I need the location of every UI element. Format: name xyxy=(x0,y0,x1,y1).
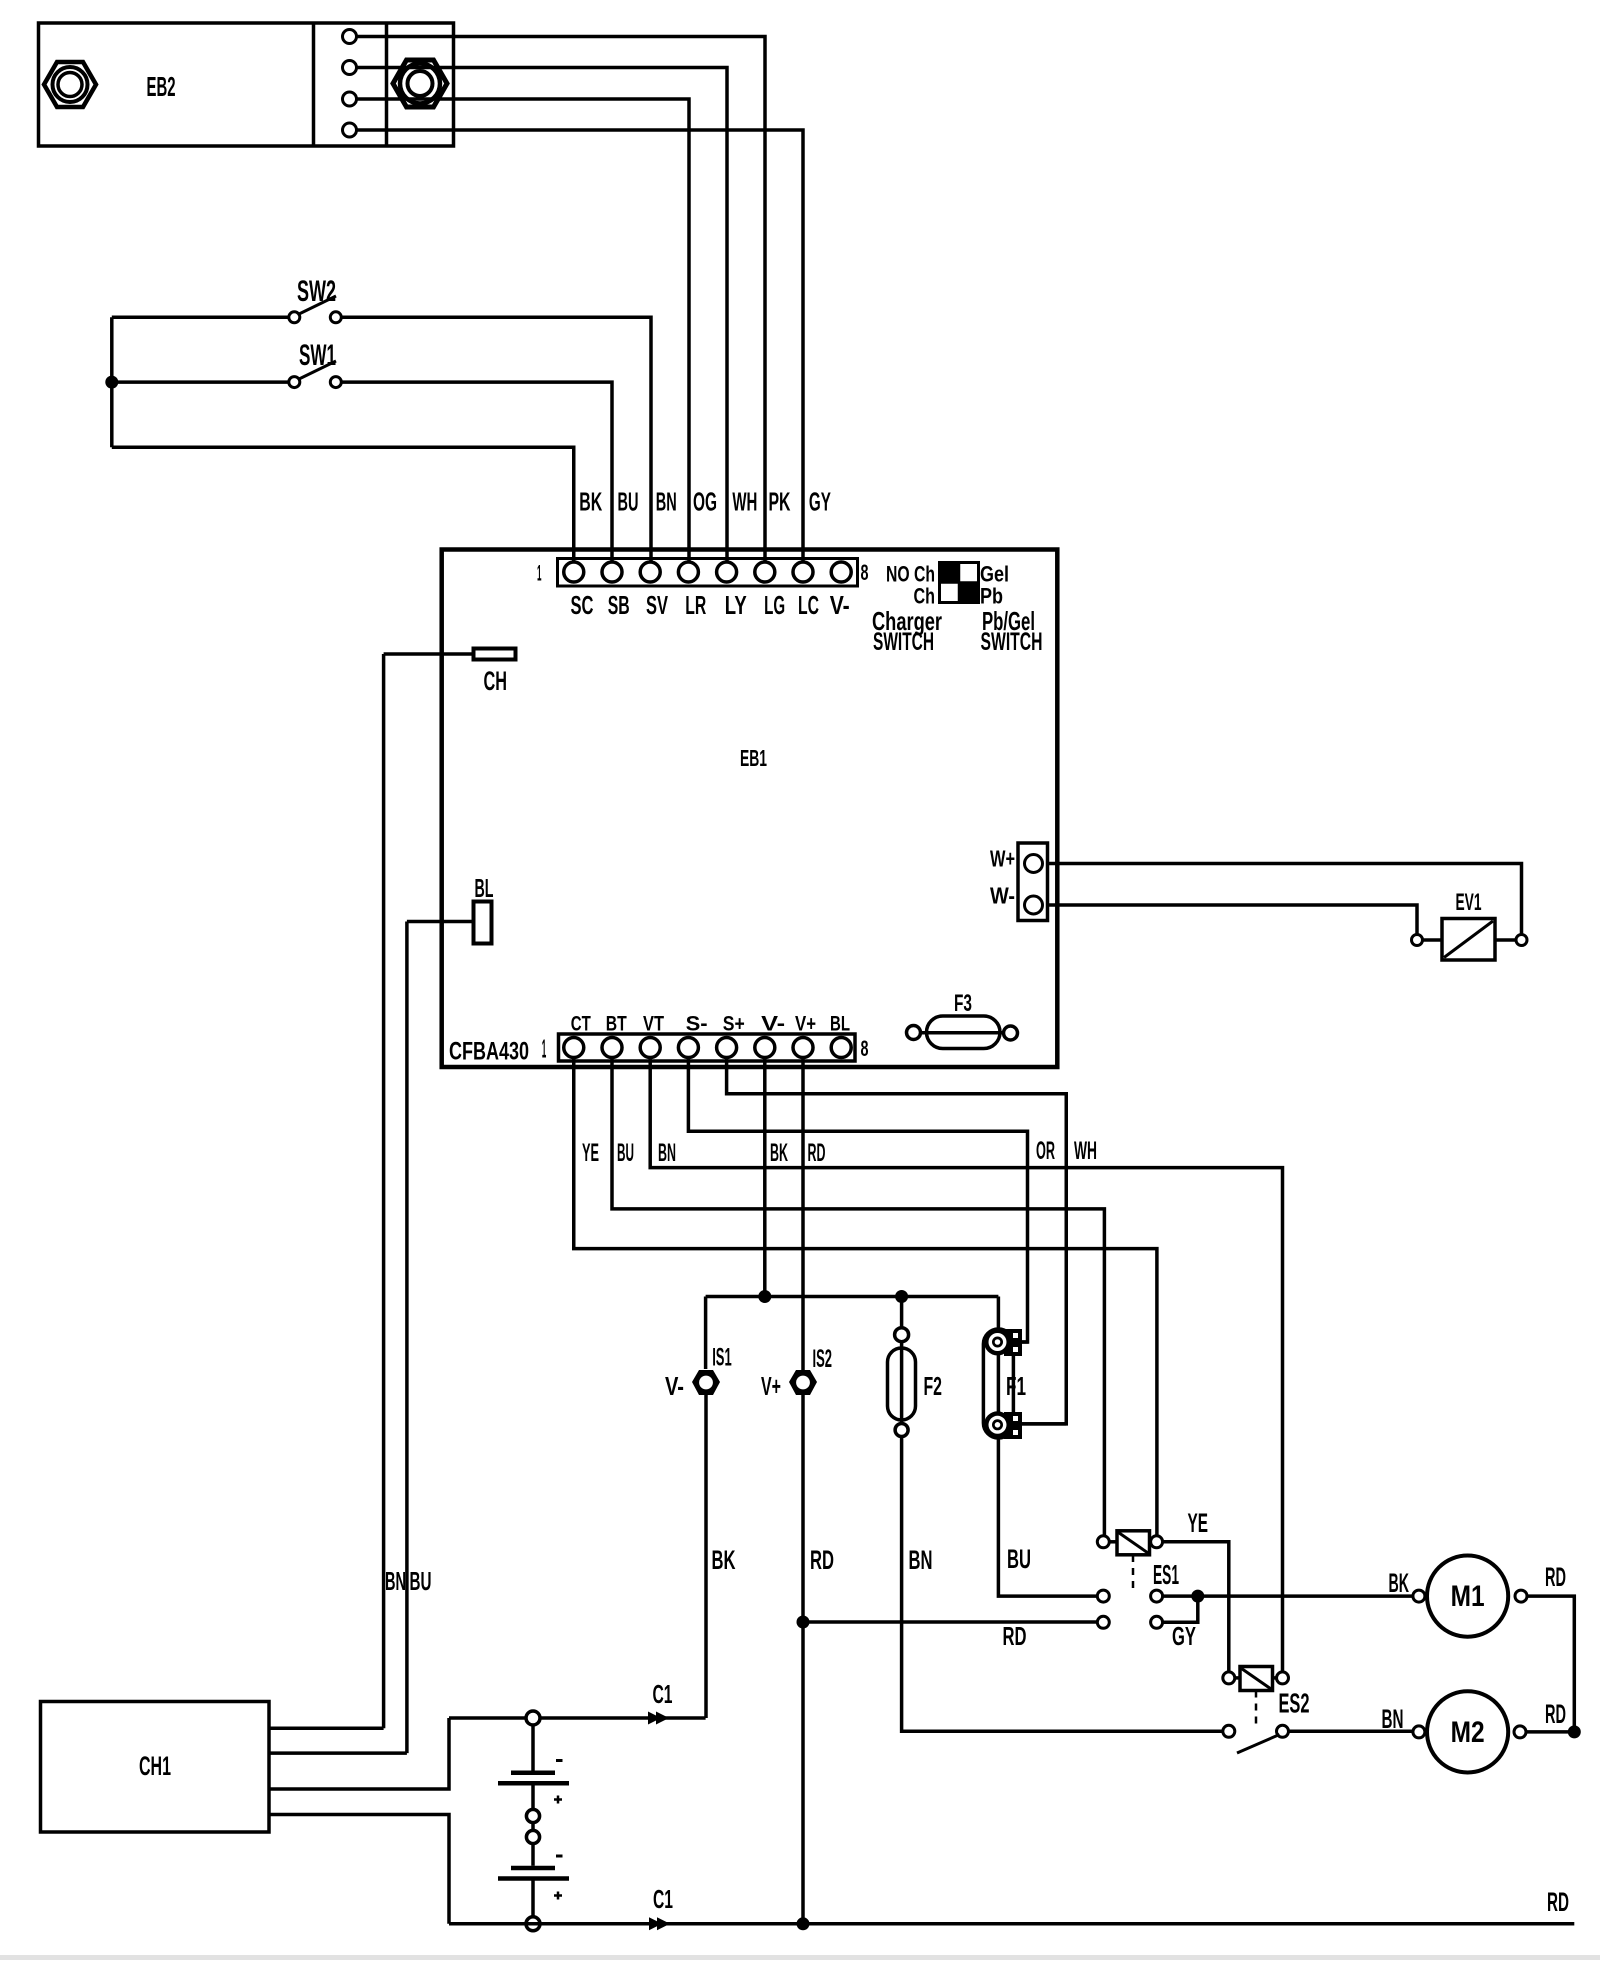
svg-text:M1: M1 xyxy=(1451,1580,1485,1613)
label RD (bottom right) xyxy=(1547,1887,1569,1917)
svg-text:OR: OR xyxy=(1036,1137,1055,1165)
label Charger xyxy=(872,606,942,636)
wire label WH (mid) xyxy=(1074,1137,1097,1165)
wire label BK (mid) xyxy=(770,1139,788,1167)
label BL xyxy=(475,873,494,903)
wire label BU xyxy=(618,489,639,517)
wire label OR (mid) xyxy=(1036,1137,1055,1165)
pin number 8 (bottom strip) xyxy=(861,1036,869,1061)
terminal label LR xyxy=(685,592,706,620)
svg-text:BK: BK xyxy=(712,1545,736,1575)
svg-text:LY: LY xyxy=(725,592,747,620)
label SWITCH (charger) xyxy=(873,628,934,656)
wire BK (IS1 down to battery rail) xyxy=(704,1394,708,1718)
svg-text:V+: V+ xyxy=(761,1371,781,1401)
terminal label V- xyxy=(830,592,850,620)
label ES1 xyxy=(1153,1559,1179,1590)
terminal label LG xyxy=(764,592,785,620)
wire M2 to RD rail xyxy=(1526,1730,1574,1734)
motor M1 xyxy=(1413,1556,1527,1637)
terminal label VT (bottom strip) xyxy=(643,1013,664,1036)
controller EB1 outline xyxy=(442,550,1058,1068)
label IS2 xyxy=(813,1345,833,1373)
terminal label LY xyxy=(725,592,747,620)
terminal block EB2 outline xyxy=(39,23,454,146)
wire CH1 to BU xyxy=(269,1751,407,1755)
wire label BN (lower) xyxy=(909,1545,933,1575)
wire BN (SW2 to terminal SV) xyxy=(341,317,651,562)
label C1 (top) xyxy=(653,1679,673,1709)
battery mid link xyxy=(531,1823,535,1831)
svg-text:CH: CH xyxy=(484,666,508,696)
svg-text:VT: VT xyxy=(643,1013,664,1036)
svg-text:SV: SV xyxy=(646,592,668,620)
label F3 xyxy=(954,990,972,1017)
battery 1 xyxy=(498,1725,569,1809)
svg-text:YE: YE xyxy=(582,1139,599,1167)
svg-text:1: 1 xyxy=(537,561,542,586)
wire label BK xyxy=(579,489,602,517)
relay ES2 actuator link xyxy=(1255,1691,1258,1727)
svg-text:WH: WH xyxy=(732,489,757,517)
label Pb xyxy=(980,584,1003,609)
svg-text:8: 8 xyxy=(861,1036,869,1061)
wire ES1 upper contact to M1 xyxy=(1162,1594,1413,1598)
wire label BU (lower) xyxy=(1007,1544,1031,1574)
charger CH1 outline xyxy=(41,1702,270,1833)
page footer line xyxy=(0,1955,1600,1960)
svg-text:SW2: SW2 xyxy=(297,275,336,308)
wire WH (S+ to F1 bottom) xyxy=(727,1058,1067,1424)
svg-text:GY: GY xyxy=(1172,1621,1196,1651)
wire GY (lower contact up to junction) xyxy=(1162,1602,1198,1623)
svg-text:BK: BK xyxy=(770,1139,788,1167)
component BL xyxy=(474,902,492,944)
junction GY / M1 wire xyxy=(1191,1590,1204,1603)
wire PK (EB2 pin1 to terminal LG) xyxy=(357,37,766,563)
label RD (contact) xyxy=(1003,1621,1027,1651)
label EV1 xyxy=(1456,889,1482,916)
svg-text:BL: BL xyxy=(475,873,494,903)
wire bus to F1 xyxy=(997,1297,1001,1330)
svg-text:S+: S+ xyxy=(723,1013,745,1036)
wire label BU (left) xyxy=(410,1566,432,1596)
wire label RD (mid) xyxy=(808,1139,826,1167)
label W- xyxy=(990,883,1015,909)
terminal CT (pin, bottom strip) xyxy=(564,1038,584,1058)
wire label RD (lower) xyxy=(810,1545,834,1575)
bottom terminal strip outline xyxy=(559,1034,856,1061)
wire bus (battery minus distribution) xyxy=(706,1295,999,1299)
switch SW2 xyxy=(112,296,341,323)
svg-text:OG: OG xyxy=(693,489,717,517)
relay ES1 contact lower xyxy=(1097,1616,1162,1628)
svg-text:RD: RD xyxy=(1545,1562,1566,1592)
terminal LR (pin) xyxy=(678,562,698,582)
svg-text:BN: BN xyxy=(1382,1704,1404,1734)
motor M2 xyxy=(1413,1691,1526,1772)
label RD (M2) xyxy=(1545,1699,1566,1729)
label RD (M1) xyxy=(1545,1562,1566,1592)
wire F1 bottom to WH xyxy=(1013,1422,1066,1426)
label F2 xyxy=(924,1371,943,1401)
wire YE (CT to ES1 coil right) xyxy=(574,1058,1157,1537)
fuse F1 bottom clip xyxy=(984,1411,1022,1439)
svg-text:S-: S- xyxy=(686,1013,708,1036)
wire label BK (lower) xyxy=(712,1545,736,1575)
svg-text:V-: V- xyxy=(830,592,850,620)
EB2 pin 1 xyxy=(343,30,357,44)
wire bus to IS1 xyxy=(704,1297,708,1370)
terminal label S+ (bottom strip) xyxy=(723,1013,745,1036)
svg-text:GY: GY xyxy=(809,489,831,517)
terminal LY (pin) xyxy=(717,562,737,582)
svg-text:PK: PK xyxy=(769,489,791,517)
svg-text:ES1: ES1 xyxy=(1153,1559,1179,1590)
svg-text:F1: F1 xyxy=(1006,1371,1026,1401)
svg-text:Pb: Pb xyxy=(980,584,1003,609)
terminal S- (pin, bottom strip) xyxy=(678,1038,698,1058)
hex bolt left of EB2 xyxy=(44,62,96,107)
svg-text:V+: V+ xyxy=(795,1013,816,1036)
wire label BN xyxy=(656,489,677,517)
EB2 pin 3 xyxy=(343,92,357,106)
label BN (M2) xyxy=(1382,1704,1404,1734)
label GY xyxy=(1172,1621,1196,1651)
switch SW1 xyxy=(112,361,341,388)
wire BN (VT to ES2 coil right) xyxy=(650,1058,1282,1673)
stud IS1 xyxy=(692,1370,720,1395)
wire RD (V+ down to bottom rail) xyxy=(801,1058,805,1924)
wire RD (IS2 branch to ES1 lower contact) xyxy=(803,1620,1098,1624)
svg-text:F2: F2 xyxy=(924,1371,943,1401)
terminal label V- (bottom strip) xyxy=(761,1013,785,1036)
svg-text:LG: LG xyxy=(764,592,785,620)
wire label BN (left) xyxy=(385,1566,406,1596)
label IS1 xyxy=(712,1344,732,1372)
terminal block W xyxy=(1018,843,1048,921)
svg-text:RD: RD xyxy=(1003,1621,1027,1651)
terminal label BL (bottom strip) xyxy=(830,1013,850,1036)
fuse F1 top clip xyxy=(984,1329,1022,1357)
wire W+ to EV1 xyxy=(1048,864,1522,935)
terminal V- (pin) xyxy=(831,562,851,582)
svg-text:EB1: EB1 xyxy=(740,745,767,771)
wire BL to left xyxy=(407,920,474,924)
label EB1 xyxy=(740,745,767,771)
wire BU (F1 to ES1 contact) xyxy=(998,1438,1097,1596)
svg-text:RD: RD xyxy=(1547,1887,1569,1917)
terminal label BT (bottom strip) xyxy=(606,1013,627,1036)
junction bottom rail / RD xyxy=(797,1917,810,1930)
svg-text:BU: BU xyxy=(617,1139,634,1167)
terminal label SC xyxy=(571,592,594,620)
svg-text:RD: RD xyxy=(808,1139,826,1167)
svg-text:W+: W+ xyxy=(990,846,1015,872)
wire W- to EV1 xyxy=(1048,905,1418,935)
connector C1 (top) arrow xyxy=(648,1712,669,1725)
svg-text:LC: LC xyxy=(798,592,819,620)
wire YE (ES1 to ES2 coil) xyxy=(1162,1542,1229,1673)
fuse F3 xyxy=(907,1016,1018,1049)
svg-text:BK: BK xyxy=(1389,1568,1410,1598)
junction bus / V- xyxy=(758,1290,771,1303)
wire BU (SW1 to terminal SB) xyxy=(341,382,612,562)
terminal V+ (pin, bottom strip) xyxy=(793,1038,813,1058)
EB2 pin 4 xyxy=(343,123,357,137)
svg-text:V-: V- xyxy=(665,1371,684,1401)
svg-text:BU: BU xyxy=(1007,1544,1031,1574)
svg-text:BT: BT xyxy=(606,1013,627,1036)
svg-text:SW1: SW1 xyxy=(299,339,336,372)
wire BK (switch rail to terminal SC) xyxy=(112,447,574,562)
relay ES1 contact upper xyxy=(1097,1590,1162,1602)
connector C1 (bottom) arrow xyxy=(649,1917,670,1930)
terminal SV (pin) xyxy=(640,562,660,582)
svg-text:EV1: EV1 xyxy=(1456,889,1482,916)
svg-text:EB2: EB2 xyxy=(147,71,176,102)
pin number 8 (top strip) xyxy=(861,560,869,585)
terminal label V+ (bottom strip) xyxy=(795,1013,816,1036)
label ES2 xyxy=(1279,1688,1310,1719)
terminal W+ pin xyxy=(1025,855,1043,873)
component CH xyxy=(474,649,516,660)
svg-text:BN: BN xyxy=(385,1566,406,1596)
terminal LC (pin) xyxy=(793,562,813,582)
wire CH1 to battery minus rail xyxy=(269,1815,449,1924)
wire label BN (mid) xyxy=(658,1139,676,1167)
svg-text:BU: BU xyxy=(410,1566,432,1596)
label YE (ES1) xyxy=(1188,1508,1209,1538)
svg-text:SC: SC xyxy=(571,592,594,620)
wire ES2 contact to M2 xyxy=(1288,1730,1413,1734)
wire CH to left xyxy=(384,652,474,656)
label F1 xyxy=(1006,1371,1026,1401)
svg-text:CH1: CH1 xyxy=(139,1751,171,1781)
fuse F1 body xyxy=(983,1329,1013,1438)
wire WH (EB2 pin2 to terminal LY) xyxy=(357,68,728,563)
label Gel xyxy=(980,562,1009,587)
terminal label LC xyxy=(798,592,819,620)
wire CH1 to BN xyxy=(269,1726,384,1730)
fuse F2 xyxy=(888,1328,916,1437)
relay ES2 coil xyxy=(1223,1667,1289,1691)
svg-text:BL: BL xyxy=(830,1013,850,1036)
svg-text:IS2: IS2 xyxy=(813,1345,833,1373)
relay ES2 contact xyxy=(1223,1725,1289,1753)
battery 2 xyxy=(498,1844,569,1917)
wire label PK xyxy=(769,489,791,517)
wire bottom rail (battery minus) xyxy=(449,1922,1574,1926)
terminal VT (pin, bottom strip) xyxy=(640,1038,660,1058)
svg-text:YE: YE xyxy=(1188,1508,1209,1538)
wire V- (to bus) xyxy=(763,1058,767,1297)
label Ch xyxy=(914,584,936,609)
svg-text:CFBA430: CFBA430 xyxy=(449,1038,529,1066)
junction bus / F2 xyxy=(895,1290,908,1303)
svg-text:LR: LR xyxy=(685,592,706,620)
label V- (IS1) xyxy=(665,1371,684,1401)
terminal label CT (bottom strip) xyxy=(571,1013,591,1036)
terminal label SV xyxy=(646,592,668,620)
terminal V- (pin, bottom strip) xyxy=(755,1038,775,1058)
svg-text:C1: C1 xyxy=(653,1679,673,1709)
EB2 pin 2 xyxy=(343,61,357,75)
valve EV1 xyxy=(1412,919,1528,961)
terminal SB (pin) xyxy=(602,562,622,582)
wire left rail of switches xyxy=(110,317,114,447)
label CH xyxy=(484,666,508,696)
label NO Ch xyxy=(886,562,935,587)
terminal W- pin xyxy=(1025,896,1043,914)
svg-text:1: 1 xyxy=(542,1034,547,1064)
terminal label S- (bottom strip) xyxy=(686,1013,708,1036)
top terminal strip outline xyxy=(558,559,858,587)
wire BN (F2 to ES2 contact) xyxy=(902,1437,1224,1732)
wire label WH xyxy=(732,489,757,517)
label Pb/Gel xyxy=(982,606,1035,636)
terminal BL (pin, bottom strip) xyxy=(831,1038,851,1058)
svg-text:IS1: IS1 xyxy=(712,1344,732,1372)
svg-text:F3: F3 xyxy=(954,990,972,1017)
battery mid terminal lower xyxy=(526,1830,539,1843)
pin number 1 (top strip) xyxy=(537,561,542,586)
wire BU (BL down to CH1) xyxy=(405,922,409,1754)
svg-text:BK: BK xyxy=(579,489,602,517)
terminal S+ (pin, bottom strip) xyxy=(717,1038,737,1058)
label SWITCH (pb/gel) xyxy=(981,628,1043,656)
junction RD rail / M2 xyxy=(1568,1725,1581,1738)
svg-text:SB: SB xyxy=(608,592,630,620)
label EB2 xyxy=(147,71,176,102)
wire battery top rail xyxy=(449,1716,706,1720)
svg-text:SWITCH: SWITCH xyxy=(873,628,934,656)
svg-text:M2: M2 xyxy=(1451,1716,1485,1749)
relay ES1 actuator link xyxy=(1132,1555,1135,1591)
svg-text:RD: RD xyxy=(810,1545,834,1575)
svg-text:BU: BU xyxy=(618,489,639,517)
junction SW1 left xyxy=(105,376,118,389)
svg-text:BN: BN xyxy=(656,489,677,517)
terminal SC (pin) xyxy=(564,562,584,582)
label SW1 xyxy=(299,339,336,372)
svg-text:SWITCH: SWITCH xyxy=(981,628,1043,656)
battery mid terminal upper xyxy=(526,1809,539,1822)
wire OR (S- to F1 top) xyxy=(688,1058,1027,1343)
relay ES1 coil xyxy=(1097,1531,1162,1555)
battery bottom terminal xyxy=(526,1917,540,1931)
wire label YE (mid) xyxy=(582,1139,599,1167)
svg-text:WH: WH xyxy=(1074,1137,1097,1165)
wire label OG xyxy=(693,489,717,517)
svg-text:Ch: Ch xyxy=(914,584,936,609)
label V+ (IS2) xyxy=(761,1371,781,1401)
label W+ xyxy=(990,846,1015,872)
label CH1 xyxy=(139,1751,171,1781)
wire BN (CH down to CH1) xyxy=(382,654,386,1728)
svg-text:BN: BN xyxy=(658,1139,676,1167)
wire label BU (mid) xyxy=(617,1139,634,1167)
svg-text:8: 8 xyxy=(861,560,869,585)
DIP switch graphic xyxy=(940,563,979,603)
wire CH1 to battery plus rail xyxy=(269,1718,449,1789)
wire M1 to RD rail xyxy=(1527,1596,1574,1732)
svg-text:RD: RD xyxy=(1545,1699,1566,1729)
wire GY (EB2 pin4 to terminal LC) xyxy=(357,130,804,562)
label BK (M1) xyxy=(1389,1568,1410,1598)
battery top terminal xyxy=(526,1711,540,1725)
stud IS2 xyxy=(789,1370,817,1395)
wire BU (BT to ES1 coil left) xyxy=(612,1058,1104,1537)
svg-text:C1: C1 xyxy=(653,1884,673,1914)
svg-text:BN: BN xyxy=(909,1545,933,1575)
hex bolt right of EB2 xyxy=(393,60,447,107)
junction RD branch xyxy=(797,1616,810,1629)
wire label GY xyxy=(809,489,831,517)
terminal BT (pin, bottom strip) xyxy=(602,1038,622,1058)
wire bus to F2 xyxy=(900,1297,904,1328)
svg-text:ES2: ES2 xyxy=(1279,1688,1310,1719)
label SW2 xyxy=(297,275,336,308)
svg-text:CT: CT xyxy=(571,1013,591,1036)
label C1 (bottom) xyxy=(653,1884,673,1914)
svg-text:V-: V- xyxy=(761,1013,785,1036)
wire F1 top to OR xyxy=(1013,1340,1028,1344)
terminal label SB xyxy=(608,592,630,620)
label CFBA430 1 xyxy=(449,1034,546,1066)
terminal LG (pin) xyxy=(755,562,775,582)
svg-text:W-: W- xyxy=(990,883,1015,909)
wire OG (EB2 pin3 to terminal LR) xyxy=(357,99,690,562)
